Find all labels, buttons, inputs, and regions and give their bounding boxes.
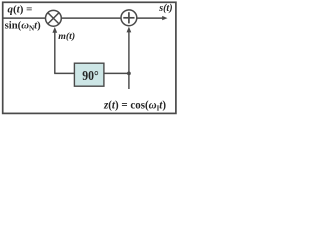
svg-text:m(t): m(t) bbox=[58, 31, 75, 42]
svg-text:90°: 90° bbox=[82, 68, 99, 83]
svg-text:sin(ωNt): sin(ωNt) bbox=[5, 19, 42, 32]
svg-text:q(t) =: q(t) = bbox=[8, 4, 33, 16]
svg-text:z(t) = cos(ωIt): z(t) = cos(ωIt) bbox=[103, 97, 166, 112]
svg-text:s(t): s(t) bbox=[158, 3, 172, 14]
